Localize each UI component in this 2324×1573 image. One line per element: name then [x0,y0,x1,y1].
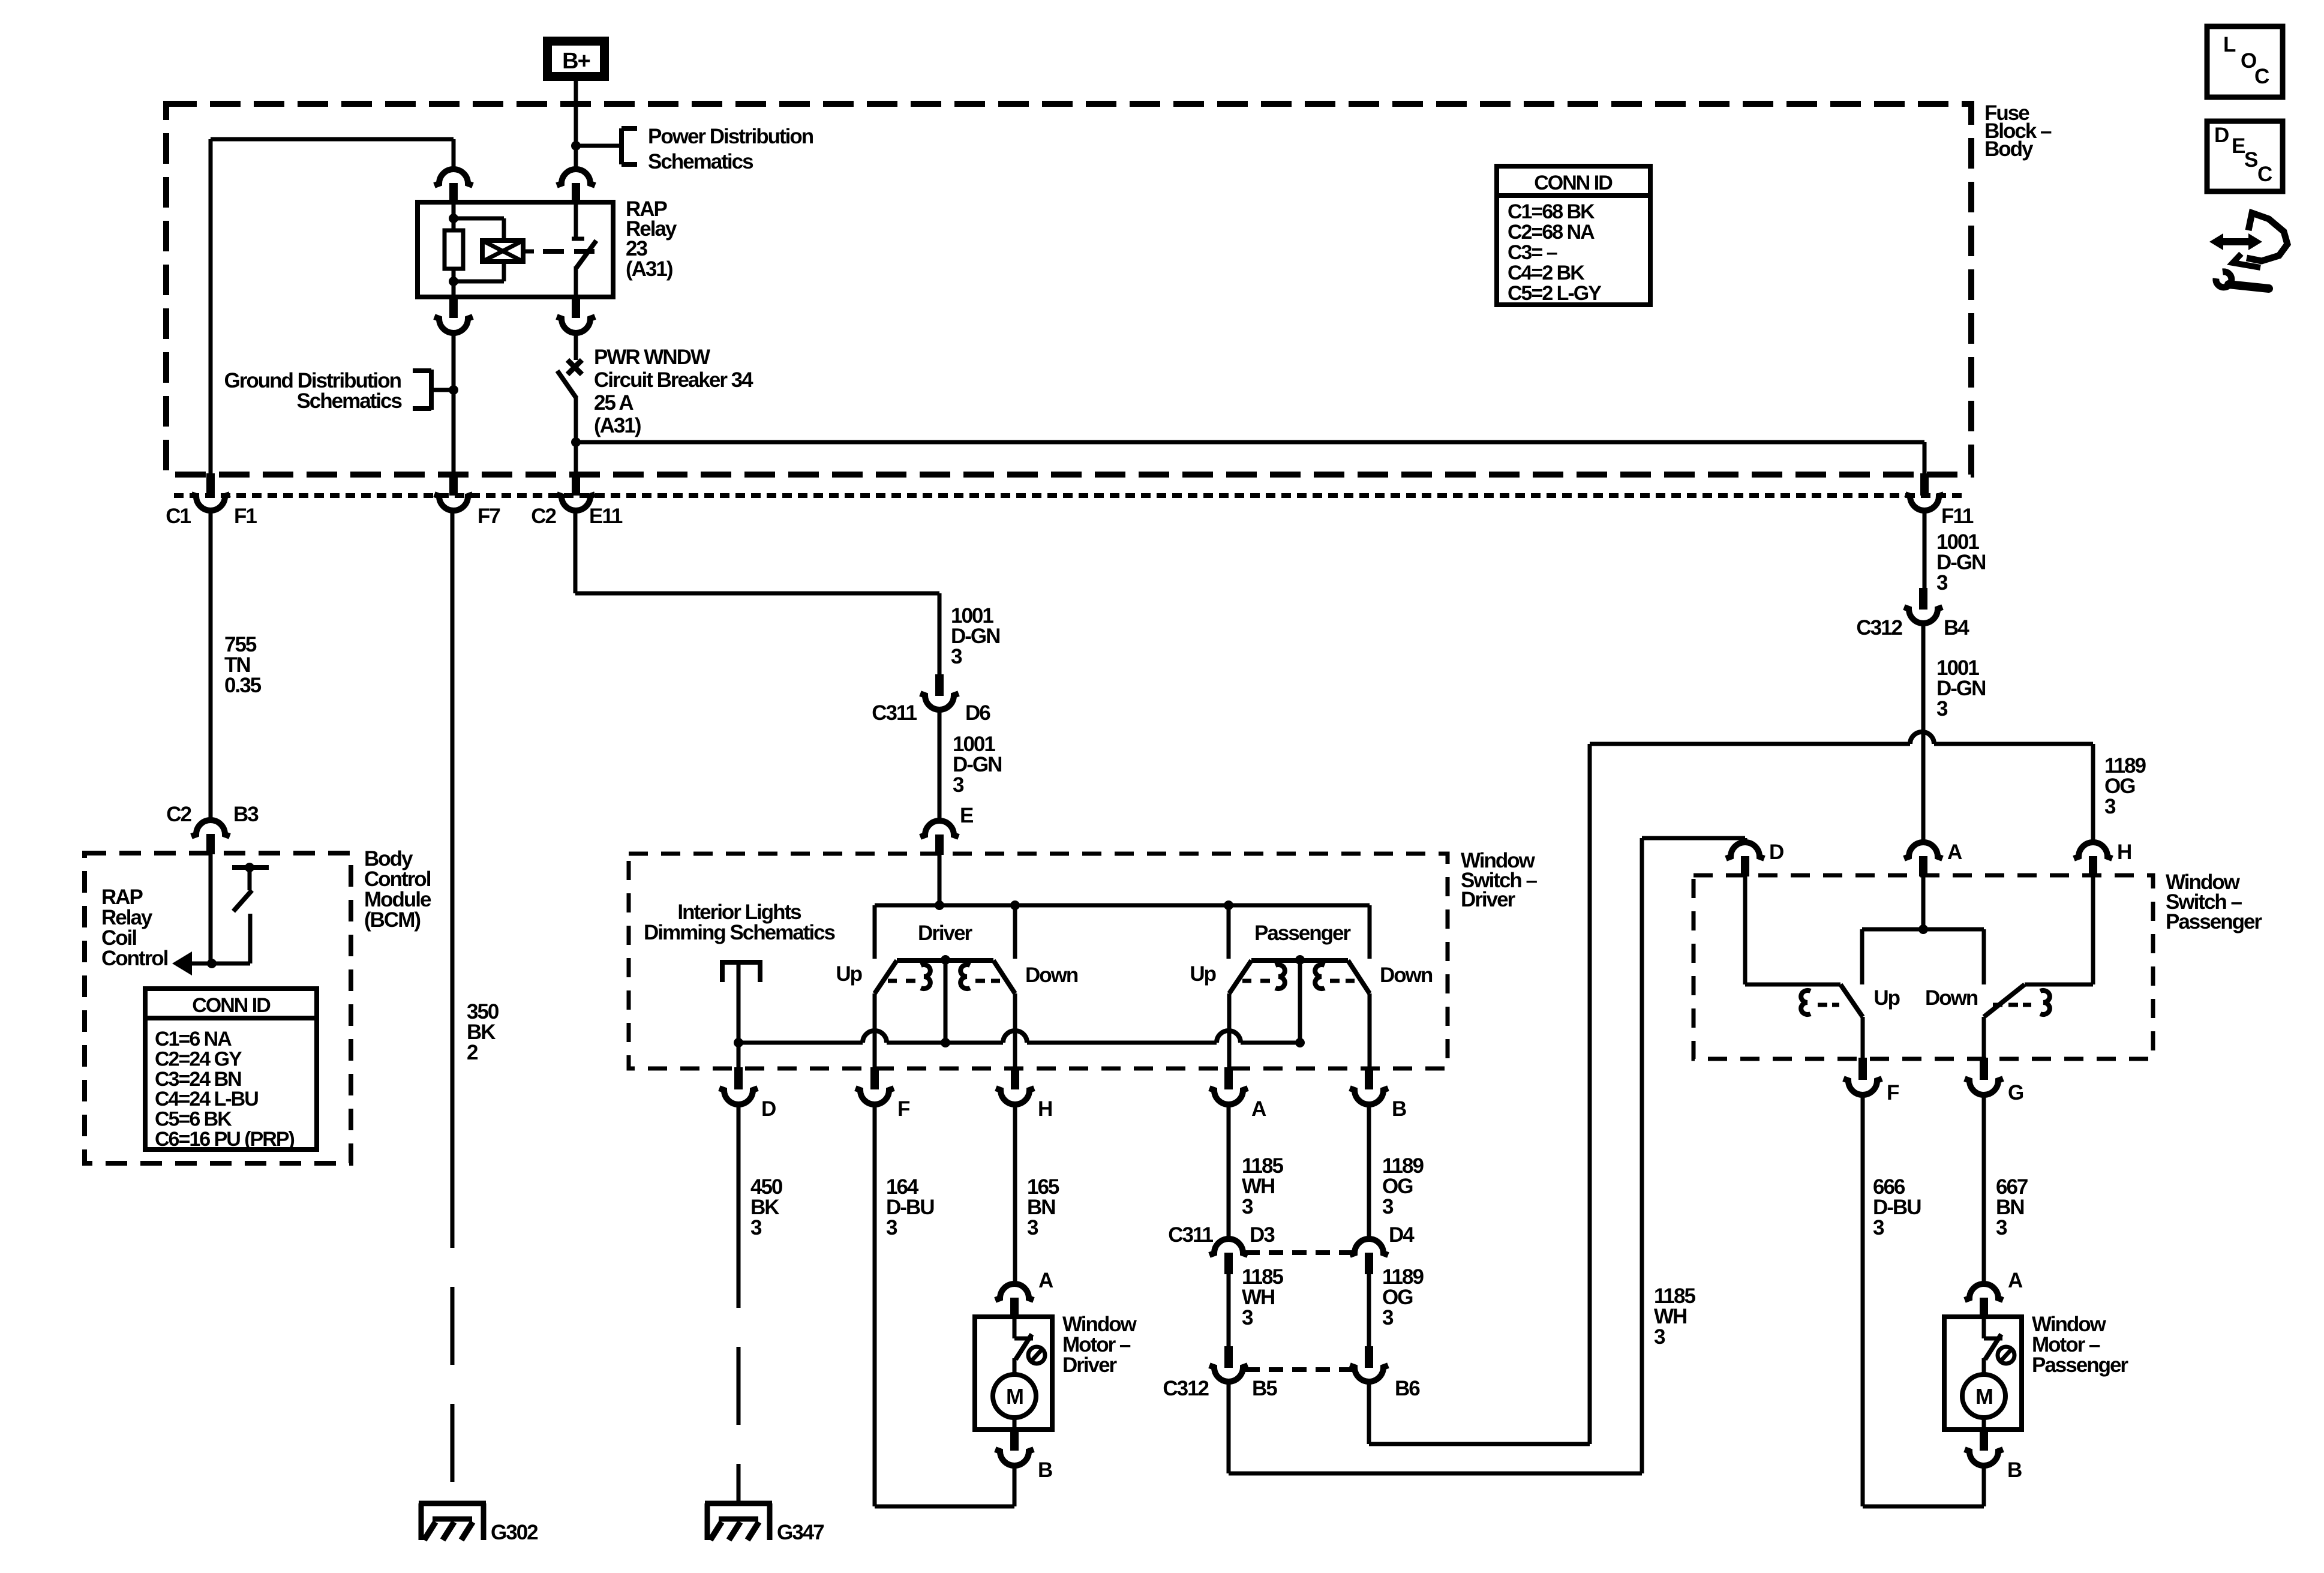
svg-text:E11: E11 [589,505,623,528]
svg-text:D: D [2214,124,2229,147]
svg-text:D: D [761,1097,776,1121]
svg-text:3: 3 [1382,1306,1394,1329]
svg-text:C1=6 NA: C1=6 NA [155,1028,232,1050]
svg-text:Driver: Driver [1062,1353,1118,1377]
svg-text:B5: B5 [1252,1377,1277,1400]
svg-text:F: F [897,1097,910,1121]
svg-text:C4=2 BK: C4=2 BK [1508,262,1585,284]
svg-text:C2: C2 [166,803,191,826]
svg-text:Dimming Schematics: Dimming Schematics [644,921,836,944]
svg-text:3: 3 [1242,1306,1253,1329]
svg-text:C311: C311 [1168,1223,1213,1247]
svg-text:(A31): (A31) [594,414,641,437]
svg-text:25 A: 25 A [594,391,633,415]
svg-text:C4=24 L-BU: C4=24 L-BU [155,1088,258,1110]
svg-text:F11: F11 [1941,505,1974,528]
svg-text:3: 3 [1996,1216,2007,1239]
svg-text:C: C [2254,65,2269,88]
svg-text:Driver: Driver [1461,888,1516,911]
svg-text:F: F [1887,1081,1899,1104]
svg-text:S: S [2244,148,2257,172]
svg-text:D: D [1769,840,1783,864]
svg-text:C312: C312 [1163,1377,1209,1400]
svg-text:C3= –: C3= – [1508,241,1557,264]
svg-text:H: H [2117,840,2131,864]
svg-text:B: B [1038,1458,1052,1482]
svg-text:CONN ID: CONN ID [1534,172,1613,194]
svg-text:3: 3 [1382,1195,1394,1218]
svg-text:C311: C311 [872,701,917,725]
svg-text:Circuit Breaker 34: Circuit Breaker 34 [594,368,753,392]
svg-text:E: E [960,804,973,827]
svg-text:3: 3 [951,645,962,668]
svg-text:M: M [1975,1384,1992,1409]
svg-text:D6: D6 [965,701,990,725]
svg-text:CONN ID: CONN ID [192,994,271,1017]
svg-text:Passenger: Passenger [1254,921,1351,945]
svg-text:G302: G302 [491,1521,538,1544]
svg-text:Up: Up [1873,986,1899,1010]
svg-text:B4: B4 [1944,616,1969,640]
svg-text:C1: C1 [166,505,191,528]
svg-text:0.35: 0.35 [224,674,262,697]
svg-text:C: C [2257,163,2272,186]
svg-text:Power Distribution: Power Distribution [648,125,813,148]
svg-text:Schematics: Schematics [296,389,402,413]
svg-text:Down: Down [1025,963,1078,987]
svg-text:3: 3 [2104,795,2116,818]
svg-text:B: B [2007,1458,2022,1482]
svg-text:D4: D4 [1389,1223,1415,1247]
svg-text:3: 3 [1873,1216,1884,1239]
svg-text:A: A [1038,1269,1053,1292]
svg-text:3: 3 [750,1216,762,1239]
svg-text:3: 3 [1654,1325,1665,1349]
svg-text:3: 3 [886,1216,897,1239]
svg-text:C6=16 PU (PRP): C6=16 PU (PRP) [155,1128,294,1151]
svg-text:C2: C2 [531,505,556,528]
svg-text:B: B [1392,1097,1406,1121]
svg-text:E: E [2232,134,2245,158]
svg-text:(BCM): (BCM) [364,908,420,932]
svg-text:C2=68 NA: C2=68 NA [1508,221,1595,244]
svg-text:L: L [2223,33,2236,56]
svg-text:3: 3 [1936,571,1948,595]
svg-text:Body: Body [1984,137,2034,161]
svg-text:Up: Up [836,962,861,986]
svg-text:B+: B+ [562,49,590,74]
svg-text:Passenger: Passenger [2032,1353,2128,1377]
svg-text:PWR WNDW: PWR WNDW [594,346,710,369]
svg-text:G347: G347 [777,1521,824,1544]
svg-text:D3: D3 [1250,1223,1275,1247]
svg-text:Down: Down [1380,963,1433,987]
svg-text:Schematics: Schematics [648,150,753,173]
svg-text:C5=6 BK: C5=6 BK [155,1108,232,1131]
svg-text:H: H [1038,1097,1052,1121]
svg-text:(A31): (A31) [626,257,672,281]
svg-text:Up: Up [1190,962,1215,986]
svg-text:C2=24 GY: C2=24 GY [155,1047,242,1070]
svg-text:Passenger: Passenger [2166,910,2262,933]
svg-text:Driver: Driver [918,921,973,945]
svg-text:Down: Down [1925,986,1978,1010]
svg-text:F7: F7 [478,505,500,528]
svg-text:F1: F1 [234,505,257,528]
svg-text:Control: Control [101,947,168,970]
svg-text:A: A [1947,840,1962,864]
svg-text:C3=24 BN: C3=24 BN [155,1068,241,1091]
svg-text:3: 3 [1242,1195,1253,1218]
svg-text:B6: B6 [1395,1377,1420,1400]
svg-text:A: A [1251,1097,1266,1121]
svg-text:M: M [1006,1384,1023,1409]
svg-text:C312: C312 [1856,616,1902,640]
svg-text:A: A [2008,1269,2023,1292]
svg-text:3: 3 [953,773,964,797]
svg-text:2: 2 [467,1041,478,1064]
svg-text:3: 3 [1027,1216,1038,1239]
svg-text:C1=68 BK: C1=68 BK [1508,200,1595,223]
svg-text:C5=2 L-GY: C5=2 L-GY [1508,282,1602,305]
svg-text:B3: B3 [233,803,259,826]
svg-text:G: G [2008,1081,2023,1104]
svg-text:3: 3 [1936,697,1948,721]
